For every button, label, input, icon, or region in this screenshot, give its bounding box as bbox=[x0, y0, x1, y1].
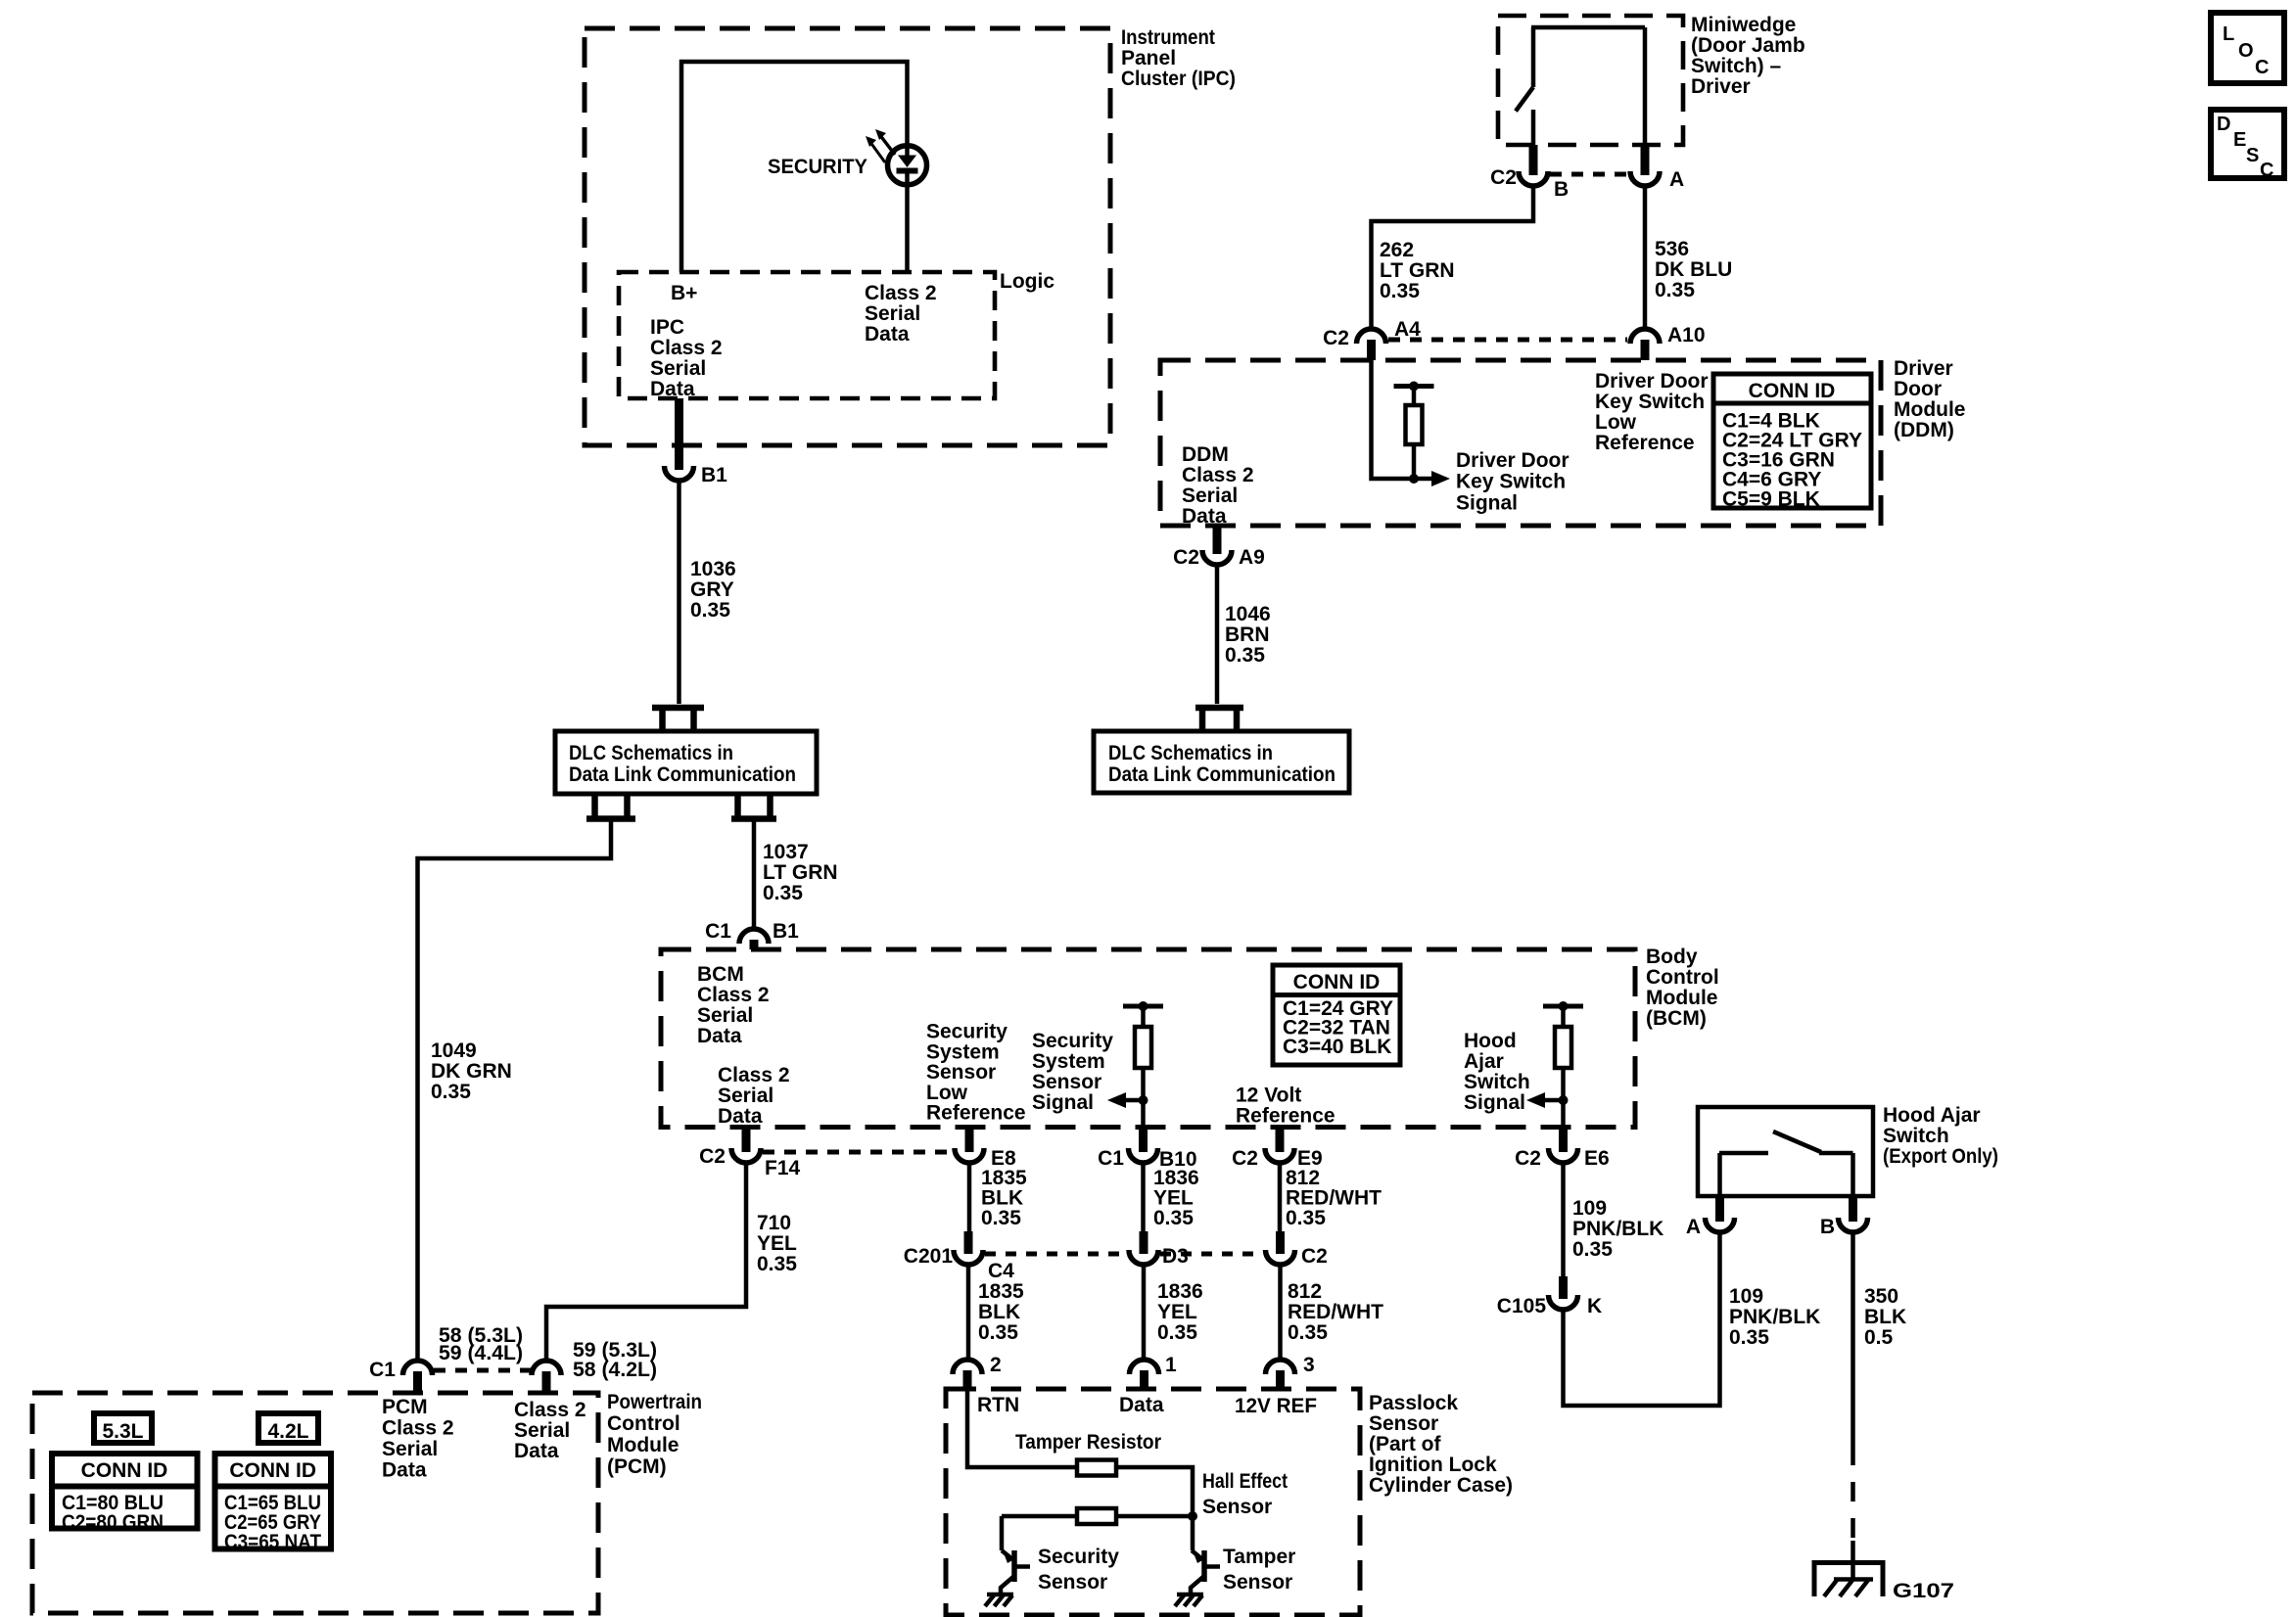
DLC box 1 bottom-right tab bbox=[731, 794, 776, 819]
svg-text:C2: C2 bbox=[1490, 166, 1517, 189]
label wire 1036 GRY 0.35 bbox=[690, 558, 736, 622]
svg-text:0.35: 0.35 bbox=[1157, 1321, 1197, 1344]
svg-text:0.35: 0.35 bbox=[1655, 279, 1695, 301]
svg-text:Driver: Driver bbox=[1691, 75, 1751, 98]
label Class 2 Serial Data (PCM pin 2) bbox=[514, 1399, 586, 1462]
wire 109 PNK/BLK 0.35 (E6 to C105) bbox=[1561, 1163, 1566, 1278]
svg-text:Serial: Serial bbox=[697, 1004, 753, 1027]
label Class 2 Serial Data (IPC pin) bbox=[865, 282, 937, 346]
connector pin 1 (passlock Data) bbox=[1130, 1354, 1178, 1389]
svg-text:Ignition Lock: Ignition Lock bbox=[1369, 1454, 1497, 1476]
svg-text:Reference: Reference bbox=[926, 1102, 1026, 1125]
svg-text:Driver Door: Driver Door bbox=[1595, 370, 1709, 393]
svg-text:C2: C2 bbox=[1301, 1245, 1328, 1268]
svg-text:Cylinder Case): Cylinder Case) bbox=[1369, 1474, 1513, 1497]
svg-text:B: B bbox=[1554, 178, 1569, 201]
svg-text:1036: 1036 bbox=[690, 558, 736, 580]
svg-text:C1: C1 bbox=[705, 920, 731, 943]
svg-text:536: 536 bbox=[1655, 238, 1689, 260]
connector C1 B1 (BCM top) bbox=[705, 920, 799, 949]
svg-text:RED/WHT: RED/WHT bbox=[1288, 1301, 1383, 1323]
svg-text:Door: Door bbox=[1894, 378, 1942, 400]
svg-text:O: O bbox=[2238, 40, 2254, 62]
label PCM Class 2 Serial Data bbox=[382, 1396, 454, 1482]
label wire 536 DK BLU 0.35 bbox=[1655, 238, 1732, 301]
svg-text:Reference: Reference bbox=[1236, 1105, 1335, 1128]
svg-text:0.35: 0.35 bbox=[981, 1207, 1021, 1229]
svg-text:0.35: 0.35 bbox=[1572, 1238, 1613, 1261]
svg-text:C2: C2 bbox=[1323, 327, 1349, 349]
svg-text:A10: A10 bbox=[1667, 324, 1706, 346]
svg-text:Signal: Signal bbox=[1032, 1091, 1094, 1114]
connector B (hood switch) bbox=[1820, 1196, 1868, 1238]
label 58 (5.3L) 59 (4.4L) bbox=[439, 1324, 523, 1364]
svg-text:(DDM): (DDM) bbox=[1894, 419, 1954, 441]
svg-text:Low: Low bbox=[1595, 411, 1637, 434]
svg-text:C: C bbox=[2255, 57, 2269, 78]
svg-text:A: A bbox=[1669, 168, 1684, 191]
label wire 1049 DK GRN 0.35 bbox=[431, 1039, 512, 1103]
label Miniwedge (Door Jamb Switch) - Driver bbox=[1691, 14, 1805, 98]
DESC legend box bbox=[2211, 110, 2284, 181]
DLC box 2 terminal tab bbox=[1195, 708, 1243, 732]
ground (security sensor) bbox=[985, 1594, 1013, 1606]
transistor security sensor bbox=[1001, 1550, 1030, 1594]
label Driver Door Key Switch Signal bbox=[1456, 449, 1570, 514]
svg-text:CONN ID: CONN ID bbox=[229, 1459, 316, 1482]
svg-text:YEL: YEL bbox=[1157, 1301, 1197, 1323]
svg-text:0.35: 0.35 bbox=[690, 599, 730, 622]
svg-text:3: 3 bbox=[1303, 1354, 1315, 1376]
svg-text:(PCM): (PCM) bbox=[607, 1455, 667, 1478]
svg-text:Miniwedge: Miniwedge bbox=[1691, 14, 1796, 36]
svg-text:C3=65 NAT: C3=65 NAT bbox=[224, 1531, 321, 1553]
label Powertrain Control Module (PCM) bbox=[607, 1391, 702, 1478]
module box Body Control Module (BCM) bbox=[661, 949, 1635, 1128]
label Security System Sensor Signal bbox=[1032, 1030, 1113, 1114]
label B+ bbox=[671, 282, 697, 304]
label 59 (5.3L) 58 (4.2L) bbox=[573, 1339, 657, 1381]
svg-text:12V REF: 12V REF bbox=[1235, 1395, 1317, 1417]
svg-text:C2: C2 bbox=[1232, 1147, 1258, 1170]
label Hood Ajar Switch (Export Only) bbox=[1883, 1104, 1998, 1168]
svg-text:Signal: Signal bbox=[1456, 491, 1518, 514]
svg-text:Reference: Reference bbox=[1595, 432, 1695, 454]
svg-text:DLC Schematics in: DLC Schematics in bbox=[569, 742, 733, 764]
CONN ID rows (4.2L) bbox=[224, 1492, 321, 1553]
svg-text:0.35: 0.35 bbox=[1153, 1207, 1194, 1229]
svg-text:(BCM): (BCM) bbox=[1646, 1007, 1707, 1030]
svg-text:PCM: PCM bbox=[382, 1396, 428, 1418]
svg-text:C2=80 GRN: C2=80 GRN bbox=[62, 1511, 164, 1534]
wire 1036 GRY 0.35 bbox=[677, 481, 681, 704]
svg-text:DLC Schematics in: DLC Schematics in bbox=[1108, 742, 1273, 764]
label Logic bbox=[1000, 270, 1054, 293]
svg-text:Data Link Communication: Data Link Communication bbox=[569, 763, 796, 786]
svg-text:C2: C2 bbox=[1173, 546, 1199, 569]
svg-text:C1: C1 bbox=[1098, 1147, 1124, 1170]
CONN ID table (DDM) bbox=[1713, 374, 1871, 508]
inline connector dotted line (C2 F14-E8) bbox=[763, 1150, 953, 1155]
svg-text:Sensor: Sensor bbox=[1223, 1571, 1292, 1594]
svg-text:SECURITY: SECURITY bbox=[768, 156, 867, 178]
svg-text:12 Volt: 12 Volt bbox=[1236, 1085, 1301, 1107]
connector C2 E9 bbox=[1232, 1128, 1323, 1171]
DLC box 1 bottom-left tab bbox=[586, 794, 635, 819]
svg-text:Class 2: Class 2 bbox=[514, 1399, 586, 1421]
connector B (miniwedge) bbox=[1490, 145, 1569, 201]
CONN ID rows (BCM) bbox=[1283, 997, 1393, 1058]
svg-text:Module: Module bbox=[1894, 398, 1966, 421]
svg-text:CONN ID: CONN ID bbox=[81, 1459, 168, 1482]
svg-text:D: D bbox=[2217, 114, 2230, 135]
arrow hood ajar switch signal bbox=[1526, 1092, 1569, 1108]
svg-text:Instrument: Instrument bbox=[1121, 26, 1215, 49]
svg-text:C3=40 BLK: C3=40 BLK bbox=[1283, 1036, 1391, 1058]
svg-text:58 (4.2L): 58 (4.2L) bbox=[573, 1359, 657, 1381]
svg-text:C1: C1 bbox=[369, 1359, 396, 1381]
second resistor (security sensor) bbox=[1002, 1508, 1197, 1524]
arrow security system sensor signal bbox=[1107, 1092, 1148, 1108]
svg-text:Hood: Hood bbox=[1464, 1030, 1517, 1052]
svg-text:C4: C4 bbox=[988, 1260, 1014, 1282]
module box Powertrain Control Module (PCM) bbox=[32, 1393, 598, 1613]
svg-text:5.3L: 5.3L bbox=[102, 1420, 143, 1443]
tamper resistor bbox=[1077, 1460, 1116, 1476]
svg-text:1049: 1049 bbox=[431, 1039, 477, 1062]
CONN ID table (4.2L) bbox=[215, 1454, 332, 1549]
svg-text:System: System bbox=[926, 1040, 1000, 1063]
engine badge 5.3L bbox=[94, 1413, 152, 1443]
label Driver Door Module (DDM) bbox=[1894, 357, 1966, 441]
svg-text:E6: E6 bbox=[1584, 1147, 1610, 1170]
svg-text:Class 2: Class 2 bbox=[650, 337, 723, 359]
label wire 710 YEL 0.35 bbox=[757, 1212, 797, 1275]
svg-text:Control: Control bbox=[607, 1412, 680, 1435]
label Data bbox=[1119, 1394, 1164, 1416]
svg-text:Module: Module bbox=[607, 1434, 679, 1456]
label DLC Schematics in Data Link Communication (box 2) bbox=[1108, 742, 1335, 786]
wire 812 RED/WHT 0.35 (upper) bbox=[1278, 1164, 1283, 1233]
wire 536 DK BLU 0.35 bbox=[1643, 186, 1648, 328]
svg-text:1037: 1037 bbox=[763, 841, 809, 863]
svg-text:Data: Data bbox=[718, 1105, 763, 1128]
svg-text:A: A bbox=[1686, 1216, 1701, 1238]
connector C2 E6 bbox=[1515, 1128, 1610, 1171]
svg-text:(Part of: (Part of bbox=[1369, 1433, 1442, 1455]
svg-text:Key Switch: Key Switch bbox=[1456, 471, 1566, 493]
svg-text:0.35: 0.35 bbox=[1288, 1321, 1328, 1344]
label G107 bbox=[1893, 1580, 1954, 1602]
svg-text:Powertrain: Powertrain bbox=[607, 1391, 702, 1413]
svg-text:A9: A9 bbox=[1239, 546, 1265, 569]
connector pin 2 (passlock RTN) bbox=[953, 1354, 1002, 1389]
svg-text:PNK/BLK: PNK/BLK bbox=[1729, 1306, 1820, 1328]
logic box (IPC) bbox=[619, 272, 995, 398]
wire 1836 YEL 0.35 (lower) bbox=[1142, 1265, 1147, 1359]
svg-text:Data: Data bbox=[697, 1025, 742, 1047]
svg-text:Sensor: Sensor bbox=[1032, 1071, 1101, 1093]
svg-text:109: 109 bbox=[1572, 1197, 1607, 1220]
svg-text:Sensor: Sensor bbox=[1202, 1496, 1272, 1518]
wire 1835 BLK 0.35 (lower) bbox=[966, 1265, 971, 1359]
svg-text:1: 1 bbox=[1165, 1354, 1177, 1376]
svg-text:Signal: Signal bbox=[1464, 1091, 1525, 1114]
svg-text:CONN ID: CONN ID bbox=[1749, 380, 1836, 402]
label Tamper Resistor bbox=[1015, 1431, 1161, 1454]
wire RTN to tamper resistor bbox=[967, 1389, 1077, 1467]
svg-text:Serial: Serial bbox=[650, 357, 706, 380]
svg-text:C: C bbox=[2260, 160, 2273, 181]
svg-text:Tamper Resistor: Tamper Resistor bbox=[1015, 1431, 1161, 1454]
ground G107 bbox=[1814, 1560, 1883, 1596]
connector B1 (IPC) bbox=[665, 398, 728, 486]
label wire 109 PNK/BLK 0.35 (pin A) bbox=[1729, 1285, 1820, 1349]
svg-text:0.5: 0.5 bbox=[1864, 1326, 1894, 1349]
svg-text:C2: C2 bbox=[699, 1145, 726, 1168]
svg-text:Serial: Serial bbox=[1182, 485, 1238, 507]
label wire 1046 BRN 0.35 bbox=[1225, 603, 1271, 667]
label 12 Volt Reference bbox=[1236, 1085, 1335, 1128]
svg-text:B1: B1 bbox=[701, 464, 727, 486]
CONN ID rows (5.3L) bbox=[62, 1492, 164, 1534]
svg-text:BLK: BLK bbox=[978, 1301, 1020, 1323]
svg-text:0.35: 0.35 bbox=[1380, 280, 1420, 302]
svg-text:Data: Data bbox=[382, 1459, 427, 1482]
svg-text:1836: 1836 bbox=[1157, 1280, 1203, 1303]
LED SECURITY indicator bbox=[888, 146, 927, 185]
wire 1836 YEL 0.35 (upper) bbox=[1141, 1164, 1146, 1233]
wire 350 BLK 0.5 bbox=[1851, 1232, 1855, 1562]
switch box Miniwedge (Door Jamb Switch) Driver bbox=[1498, 16, 1683, 145]
label wire 1835 BLK 0.35 (upper) bbox=[981, 1167, 1027, 1229]
sensor box Passlock Sensor bbox=[946, 1389, 1360, 1615]
CONN ID table (5.3L) bbox=[52, 1454, 198, 1529]
connector pin 3 (passlock 12V REF) bbox=[1266, 1354, 1315, 1389]
arrow driver door key switch signal bbox=[1431, 471, 1450, 486]
connector Class 2 pin (PCM) bbox=[532, 1361, 561, 1393]
svg-text:E: E bbox=[2233, 129, 2246, 151]
svg-text:Body: Body bbox=[1646, 946, 1698, 968]
connector C1 B10 bbox=[1098, 1128, 1196, 1172]
label Security System Sensor Low Reference bbox=[926, 1021, 1026, 1125]
svg-text:LT GRN: LT GRN bbox=[1380, 259, 1455, 282]
wire 1037 LT GRN 0.35 bbox=[752, 821, 757, 929]
inline connector dotted line (miniwedge row) bbox=[1550, 172, 1628, 177]
svg-text:Data: Data bbox=[1119, 1394, 1164, 1416]
svg-text:Security: Security bbox=[1038, 1546, 1119, 1568]
svg-text:Serial: Serial bbox=[382, 1438, 438, 1460]
resistor (BCM security sensor signal) bbox=[1123, 1001, 1163, 1128]
label Passlock Sensor (Part of Ignition Lock Cylinder Case) bbox=[1369, 1392, 1513, 1497]
wire 812 RED/WHT 0.35 (lower) bbox=[1278, 1265, 1283, 1359]
label wire 1037 LT GRN 0.35 bbox=[763, 841, 838, 904]
svg-text:Ajar: Ajar bbox=[1464, 1050, 1504, 1073]
svg-text:(Door Jamb: (Door Jamb bbox=[1691, 34, 1805, 57]
svg-text:Panel: Panel bbox=[1121, 47, 1176, 69]
inline connector dotted line (C201 row) bbox=[985, 1252, 1263, 1257]
svg-text:Serial: Serial bbox=[718, 1085, 773, 1107]
svg-text:Tamper: Tamper bbox=[1223, 1546, 1295, 1568]
connector C105 K bbox=[1497, 1276, 1602, 1317]
svg-text:4.2L: 4.2L bbox=[267, 1420, 308, 1443]
svg-text:Class 2: Class 2 bbox=[382, 1417, 454, 1440]
wire C105 to hood switch pin A bbox=[1564, 1232, 1720, 1406]
connector A (hood switch) bbox=[1686, 1196, 1735, 1238]
svg-text:DK BLU: DK BLU bbox=[1655, 258, 1732, 281]
inline connector dotted line (DDM row) bbox=[1388, 338, 1627, 343]
connector E8 bbox=[955, 1128, 1016, 1171]
svg-text:0.35: 0.35 bbox=[757, 1253, 797, 1275]
svg-text:GRY: GRY bbox=[690, 578, 734, 601]
svg-text:Cluster (IPC): Cluster (IPC) bbox=[1121, 68, 1236, 90]
svg-text:C105: C105 bbox=[1497, 1295, 1547, 1317]
wire 262 LT GRN 0.35 bbox=[1372, 186, 1534, 328]
svg-text:BRN: BRN bbox=[1225, 624, 1270, 646]
label IPC Class 2 Serial Data bbox=[650, 316, 723, 400]
svg-text:Sensor: Sensor bbox=[926, 1061, 996, 1084]
ground (tamper sensor) bbox=[1175, 1594, 1203, 1606]
svg-text:Module: Module bbox=[1646, 987, 1718, 1009]
label Class 2 Serial Data (F14 pin) bbox=[718, 1064, 790, 1128]
LOC legend box bbox=[2211, 13, 2284, 83]
connector C1 (PCM) bbox=[369, 1359, 432, 1393]
wire to security sensor bbox=[1000, 1516, 1005, 1550]
connector D3 bbox=[1129, 1231, 1189, 1268]
DLC Schematics box 2 bbox=[1094, 731, 1349, 793]
CONN ID table (BCM) bbox=[1273, 965, 1400, 1065]
svg-text:Class 2: Class 2 bbox=[865, 282, 937, 304]
svg-text:B1: B1 bbox=[773, 920, 799, 943]
svg-text:350: 350 bbox=[1864, 1285, 1898, 1308]
svg-text:S: S bbox=[2246, 145, 2259, 166]
svg-text:Class 2: Class 2 bbox=[1182, 464, 1254, 486]
svg-text:0.35: 0.35 bbox=[1729, 1326, 1769, 1349]
connector C2 A4 (DDM) bbox=[1323, 318, 1421, 360]
svg-text:0.35: 0.35 bbox=[763, 882, 803, 904]
label Hood Ajar Switch Signal bbox=[1464, 1030, 1530, 1114]
label wire 812 RED/WHT 0.35 (upper) bbox=[1286, 1167, 1382, 1229]
svg-text:0.35: 0.35 bbox=[1225, 644, 1265, 667]
wire 710 YEL 0.35 bbox=[546, 1164, 746, 1361]
svg-text:C2: C2 bbox=[1515, 1147, 1541, 1170]
svg-text:C201: C201 bbox=[904, 1245, 954, 1268]
svg-text:IPC: IPC bbox=[650, 316, 684, 339]
label wire 1836 YEL 0.35 (upper) bbox=[1153, 1167, 1199, 1229]
svg-text:Low: Low bbox=[926, 1082, 968, 1104]
svg-text:2: 2 bbox=[990, 1354, 1002, 1376]
wire 1835 BLK 0.35 (upper) bbox=[967, 1164, 972, 1233]
label Security Sensor bbox=[1038, 1546, 1119, 1594]
module box Instrument Panel Cluster (IPC) bbox=[585, 28, 1110, 445]
svg-text:Data: Data bbox=[650, 378, 695, 400]
connector C2 (C201 row) bbox=[1266, 1231, 1328, 1268]
svg-text:YEL: YEL bbox=[757, 1232, 797, 1255]
CONN ID rows (DDM) bbox=[1722, 410, 1862, 511]
label Driver Door Key Switch Low Reference bbox=[1595, 370, 1709, 454]
svg-text:BLK: BLK bbox=[1864, 1306, 1906, 1328]
switch box Hood Ajar Switch (Export Only) bbox=[1698, 1107, 1873, 1196]
svg-text:Hall Effect: Hall Effect bbox=[1202, 1470, 1288, 1493]
svg-text:0.35: 0.35 bbox=[978, 1321, 1018, 1344]
label 12V REF bbox=[1235, 1395, 1317, 1417]
door jamb switch symbol bbox=[1516, 27, 1645, 145]
DLC Schematics box 1 bbox=[555, 731, 817, 794]
svg-text:Hood Ajar: Hood Ajar bbox=[1883, 1104, 1981, 1127]
svg-text:Driver Door: Driver Door bbox=[1456, 449, 1570, 472]
svg-text:DK GRN: DK GRN bbox=[431, 1060, 512, 1083]
svg-text:G107: G107 bbox=[1893, 1580, 1954, 1602]
module box Driver Door Module (DDM) bbox=[1160, 360, 1881, 526]
label Hall Effect Sensor bbox=[1202, 1470, 1288, 1518]
svg-text:System: System bbox=[1032, 1050, 1105, 1073]
svg-text:Control: Control bbox=[1646, 966, 1719, 989]
engine badge 4.2L bbox=[258, 1413, 318, 1443]
label SECURITY bbox=[768, 156, 867, 178]
transistor tamper sensor bbox=[1191, 1550, 1220, 1594]
svg-text:B: B bbox=[1820, 1216, 1835, 1238]
svg-text:RTN: RTN bbox=[977, 1394, 1019, 1416]
wire 1049 DK GRN 0.35 (long left run) bbox=[418, 821, 612, 1361]
svg-text:Security: Security bbox=[926, 1021, 1007, 1043]
svg-text:0.35: 0.35 bbox=[1286, 1207, 1326, 1229]
label DLC Schematics in Data Link Communication (box 1) bbox=[569, 742, 796, 786]
svg-text:PNK/BLK: PNK/BLK bbox=[1572, 1218, 1663, 1240]
inline connector dotted line (PCM row) bbox=[434, 1368, 531, 1373]
svg-text:Key Switch: Key Switch bbox=[1595, 391, 1705, 413]
resistor (BCM hood ajar switch signal) bbox=[1543, 1001, 1583, 1128]
wire 1046 BRN 0.35 bbox=[1215, 565, 1220, 704]
label RTN bbox=[977, 1394, 1019, 1416]
svg-text:812: 812 bbox=[1288, 1280, 1322, 1303]
DLC box terminal tab (top) bbox=[652, 708, 704, 732]
svg-text:1046: 1046 bbox=[1225, 603, 1271, 625]
connector C2 F14 bbox=[699, 1128, 800, 1180]
svg-text:Serial: Serial bbox=[514, 1419, 570, 1442]
wire DDM key switch signal internal bbox=[1372, 360, 1432, 479]
label wire 1836 YEL 0.35 (lower) bbox=[1157, 1280, 1203, 1344]
connector C201 C4 bbox=[904, 1231, 1014, 1282]
svg-text:0.35: 0.35 bbox=[431, 1081, 471, 1103]
svg-text:B+: B+ bbox=[671, 282, 697, 304]
svg-text:CONN ID: CONN ID bbox=[1293, 971, 1381, 993]
svg-text:109: 109 bbox=[1729, 1285, 1763, 1308]
svg-text:Sensor: Sensor bbox=[1038, 1571, 1107, 1594]
LED light arrows bbox=[866, 129, 895, 162]
svg-text:DDM: DDM bbox=[1182, 443, 1229, 466]
svg-text:Switch: Switch bbox=[1883, 1125, 1949, 1147]
svg-text:Data: Data bbox=[865, 323, 910, 346]
label Body Control Module (BCM) bbox=[1646, 946, 1719, 1030]
svg-text:Sensor: Sensor bbox=[1369, 1412, 1438, 1435]
label BCM Class 2 Serial Data bbox=[697, 963, 770, 1047]
svg-text:C5=9 BLK: C5=9 BLK bbox=[1722, 488, 1820, 511]
connector C2 A9 (DDM bottom) bbox=[1173, 526, 1265, 569]
svg-text:(Export Only): (Export Only) bbox=[1883, 1145, 1998, 1168]
svg-text:BCM: BCM bbox=[697, 963, 744, 986]
svg-text:Data Link Communication: Data Link Communication bbox=[1108, 763, 1335, 786]
svg-text:262: 262 bbox=[1380, 239, 1414, 261]
label Tamper Sensor bbox=[1223, 1546, 1295, 1594]
svg-text:Switch) –: Switch) – bbox=[1691, 55, 1782, 77]
svg-text:L: L bbox=[2223, 23, 2234, 45]
label wire 1835 BLK 0.35 (lower) bbox=[978, 1280, 1024, 1344]
svg-text:Logic: Logic bbox=[1000, 270, 1054, 293]
svg-text:Switch: Switch bbox=[1464, 1071, 1530, 1093]
label wire 109 PNK/BLK 0.35 (E6) bbox=[1572, 1197, 1663, 1261]
svg-text:Class 2: Class 2 bbox=[718, 1064, 790, 1086]
svg-text:59 (4.4L): 59 (4.4L) bbox=[439, 1342, 523, 1364]
